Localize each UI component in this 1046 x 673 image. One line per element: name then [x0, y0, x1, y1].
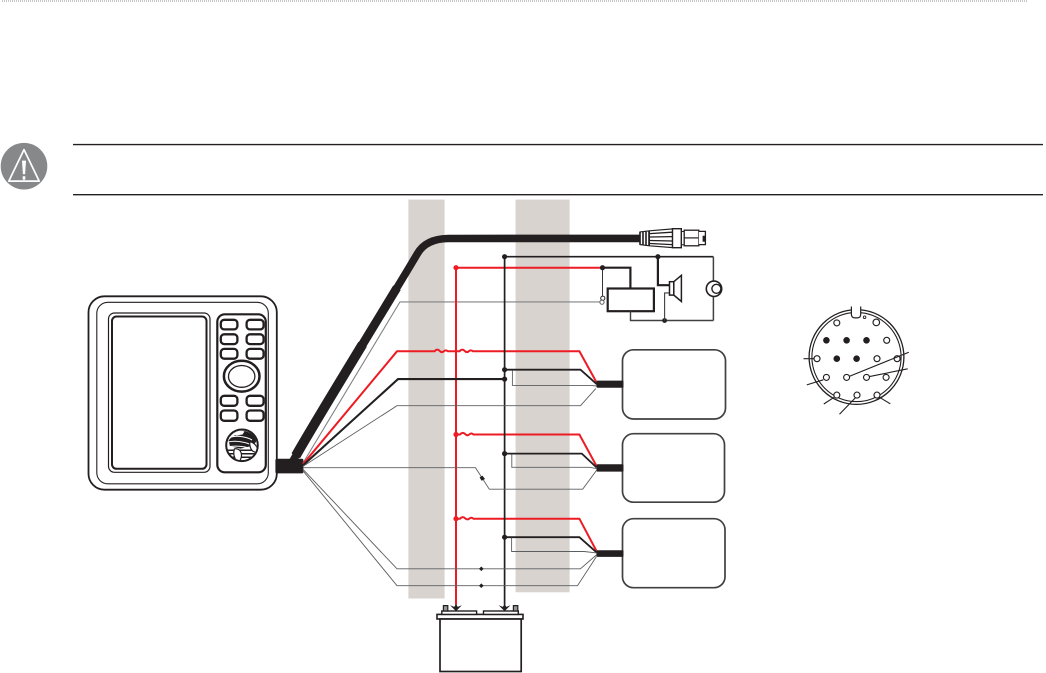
- node: ground wire to bus: [502, 377, 507, 382]
- signal wire A device 3 from unit: [303, 469, 597, 569]
- main power/data cable: [289, 238, 640, 468]
- horizontal rules: [73, 145, 1043, 195]
- red power wire from unit to device 1: [303, 350, 597, 465]
- black ground wire from unit: [303, 379, 505, 465]
- keypad panel: [217, 314, 265, 472]
- chartplotter unit U1: [89, 296, 304, 489]
- relay box K1: [608, 289, 654, 312]
- relay feed wire (thick): [603, 268, 631, 290]
- battery cell strip -: [484, 611, 519, 614]
- node: black junction device 1: [502, 367, 507, 372]
- warning icon: [1, 143, 48, 190]
- NMEA device 3 box: [623, 519, 726, 588]
- top dotted trim line (decorative): [2, 0, 1028, 2]
- screen inner frame: [112, 317, 207, 469]
- index dot: [863, 316, 866, 319]
- battery lid: [437, 614, 523, 619]
- cable connector plug P1: [640, 229, 705, 248]
- plug boot body: [640, 229, 673, 248]
- pinout outer shell: [809, 310, 904, 405]
- battery + terminal arrow: [450, 604, 462, 612]
- globe logo: [226, 430, 258, 468]
- rocker dial: [224, 361, 260, 392]
- battery BT1: [437, 606, 523, 672]
- plug boot ribs: [640, 231, 649, 246]
- keypad buttons lower block: [221, 396, 264, 421]
- connector pinout view J1: [804, 307, 909, 415]
- node: black junction device 2: [502, 451, 507, 456]
- signal wire device 1 from unit: [303, 389, 596, 467]
- signal wire pair device 2 (drop): [512, 454, 597, 468]
- pin row 3: [814, 356, 820, 362]
- battery post - side lug: [513, 606, 517, 611]
- device 1 connector stub: [597, 381, 624, 388]
- plug barrel: [684, 230, 699, 246]
- device 3 connector stub: [597, 550, 624, 557]
- keypad buttons top block: [221, 320, 264, 359]
- NMEA device 1 box: [623, 350, 726, 419]
- keyway notch: [851, 307, 860, 318]
- pin row 5: [834, 392, 880, 398]
- relay terminal lug A: [601, 296, 605, 300]
- node: red wire end at relay feed: [600, 265, 605, 270]
- pin row 2 (filled pins 1-3): [823, 337, 870, 344]
- node: rail junction: [662, 318, 667, 323]
- highlight bar 1: [408, 200, 444, 599]
- pin row 4: [823, 374, 889, 380]
- node: black junction device 3: [502, 535, 507, 540]
- node: red junction device 3: [453, 516, 458, 521]
- splice diamond on signal wire B: [479, 583, 484, 588]
- relay terminal lug B: [600, 300, 604, 304]
- plug tip: [699, 231, 706, 244]
- splice diamond on signal wire A: [479, 567, 484, 572]
- black branch wire to device 1: [505, 370, 597, 385]
- gray accessory wire to relay: [303, 302, 600, 463]
- unit outer case: [89, 296, 277, 489]
- relay coil lead (thin): [602, 268, 604, 296]
- node: red bus corner: [453, 265, 458, 270]
- ground bus riser: [505, 257, 714, 605]
- splice arrow on device 2 signal wire: [480, 476, 485, 481]
- red branch wire to device 2: [456, 433, 597, 466]
- pin leader lines: [804, 352, 909, 414]
- power/data connector block on unit: [275, 459, 303, 474]
- black branch wire to device 2: [505, 454, 597, 468]
- screen outer frame: [109, 313, 211, 472]
- pin row 1: [834, 319, 880, 326]
- red branch wire to device 3: [456, 517, 597, 551]
- speaker LS1: [670, 275, 682, 301]
- plug collar: [673, 229, 682, 248]
- node: red junction device 2: [453, 432, 458, 437]
- battery body: [440, 619, 521, 672]
- wire: rail to speaker - terminal: [665, 293, 670, 321]
- node: speaker + tap on ground line: [655, 254, 660, 259]
- node: ground bus corner: [502, 254, 507, 259]
- signal wire pair device 3 (drop): [512, 538, 597, 553]
- signal wire pair device 1 (drop): [512, 370, 596, 386]
- battery - terminal arrow: [499, 604, 511, 612]
- wire: tap to speaker + terminal: [658, 257, 670, 286]
- signal wire B device 3 from unit: [303, 471, 597, 586]
- NMEA device 2 box: [623, 434, 725, 503]
- black branch wire to device 3: [505, 537, 597, 552]
- horn/buzzer H1: [706, 281, 721, 296]
- signal wire device 2 from unit: [303, 468, 596, 490]
- wire: right return leg: [712, 257, 714, 321]
- wire: relay output to common rail: [631, 311, 714, 320]
- unit inner bezel: [97, 302, 268, 484]
- battery post + side lug: [443, 606, 447, 611]
- device 2 connector stub: [597, 464, 624, 471]
- highlight bar 2: [516, 200, 570, 593]
- battery cell strip +: [442, 611, 477, 614]
- red power bus: riser and feed to relay: [456, 268, 603, 605]
